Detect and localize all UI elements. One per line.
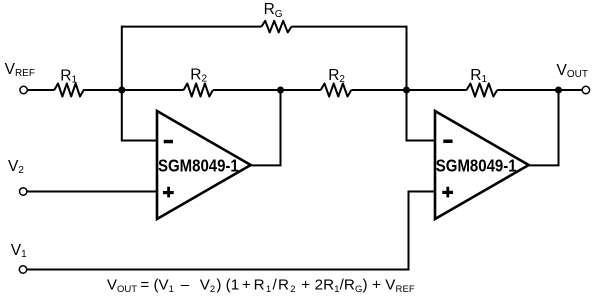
svg-text:SGM8049-1: SGM8049-1 [158,156,239,175]
svg-text:VOUT= (V1–V2) (1+R1/R2+ 2R1/RG: VOUT= (V1–V2) (1+R1/R2+ 2R1/RG) + VREF [107,276,415,295]
svg-text:SGM8049-1: SGM8049-1 [436,156,517,175]
